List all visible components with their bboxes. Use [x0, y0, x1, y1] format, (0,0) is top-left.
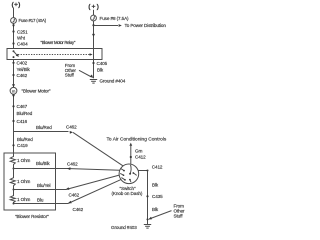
- svg-text:1 Ohm: 1 Ohm: [17, 158, 31, 163]
- svg-text:To Power Distribution: To Power Distribution: [125, 23, 167, 28]
- svg-text:(+): (+): [12, 1, 21, 8]
- svg-text:C419: C419: [17, 143, 28, 148]
- svg-text:Blu/Yel: Blu/Yel: [37, 183, 51, 188]
- svg-text:C404: C404: [17, 41, 28, 46]
- svg-text:"Blower Resistor": "Blower Resistor": [15, 214, 49, 219]
- svg-text:To Air Conditioning Controls: To Air Conditioning Controls: [107, 137, 167, 143]
- svg-text:C467: C467: [17, 104, 28, 109]
- svg-text:C412: C412: [135, 154, 146, 159]
- svg-text:C435: C435: [152, 194, 163, 199]
- svg-text:Blu/Red: Blu/Red: [17, 137, 33, 142]
- svg-text:C412: C412: [152, 165, 163, 170]
- svg-text:Blu/Red: Blu/Red: [36, 125, 52, 130]
- svg-text:Blk: Blk: [152, 207, 159, 212]
- svg-text:C462: C462: [67, 161, 78, 166]
- svg-text:C405: C405: [97, 61, 108, 66]
- svg-text:Blu/Red: Blu/Red: [17, 111, 33, 116]
- svg-text:(+): (+): [88, 3, 100, 10]
- svg-text:"Blower Motor": "Blower Motor": [22, 89, 51, 94]
- svg-text:Fuse #17 (40A): Fuse #17 (40A): [19, 18, 47, 23]
- svg-text:C462: C462: [69, 193, 80, 198]
- svg-text:Stuff: Stuff: [65, 73, 75, 78]
- svg-text:Yel/Blk: Yel/Blk: [17, 67, 31, 72]
- svg-text:Blk: Blk: [97, 68, 104, 73]
- svg-text:Fuse #8 (7.5A): Fuse #8 (7.5A): [100, 16, 130, 21]
- svg-text:C416: C416: [17, 119, 28, 124]
- svg-text:Ground #403: Ground #403: [111, 225, 137, 230]
- svg-text:Wht: Wht: [17, 35, 26, 40]
- svg-text:1 Ohm: 1 Ohm: [17, 179, 31, 184]
- svg-text:Blu: Blu: [37, 198, 44, 203]
- svg-text:(Knob on Dash): (Knob on Dash): [112, 191, 143, 196]
- svg-text:C462: C462: [66, 125, 77, 130]
- svg-text:C251: C251: [17, 29, 28, 34]
- svg-text:Blu/Blk: Blu/Blk: [36, 161, 50, 166]
- svg-text:Blk: Blk: [152, 183, 159, 188]
- svg-text:Grn: Grn: [135, 149, 143, 154]
- svg-text:C462: C462: [73, 207, 84, 212]
- svg-text:Ground #404: Ground #404: [100, 79, 126, 84]
- svg-text:1 Ohm: 1 Ohm: [17, 197, 31, 202]
- svg-text:C462: C462: [17, 73, 28, 78]
- svg-text:C402: C402: [17, 61, 28, 66]
- svg-text:"Blower Motor Relay": "Blower Motor Relay": [41, 40, 76, 45]
- svg-text:Stuff: Stuff: [174, 214, 184, 219]
